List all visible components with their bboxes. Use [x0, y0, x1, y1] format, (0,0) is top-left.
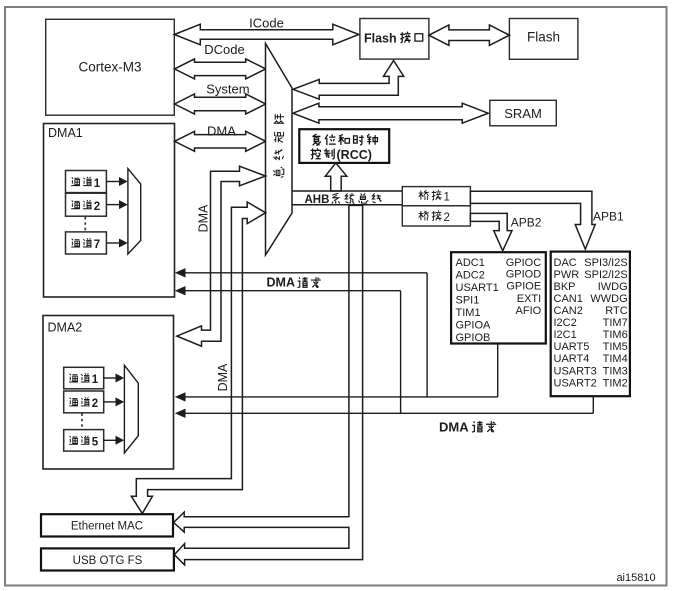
svg-text:7: 7 [94, 239, 100, 251]
svg-text:Flash: Flash [364, 31, 397, 45]
wire DMA request line 1 into DMA1 (from APB2 area) [175, 268, 427, 397]
svg-text:SPI2/I2S: SPI2/I2S [584, 269, 627, 281]
box channel2 DMA1 通道2 [66, 193, 107, 216]
wire bridge2 to APB2 (bent hollow arrow down) [470, 213, 541, 250]
svg-text:2: 2 [92, 398, 98, 410]
svg-text:GPIOC: GPIOC [506, 257, 542, 269]
arrow DMA1 channel7 to mux [107, 239, 128, 248]
wire System (double arrow Cortex-M3 to bus matrix) [175, 82, 266, 114]
svg-text:DMA: DMA [197, 204, 211, 232]
box Flash interface (Flash接口) [360, 19, 429, 60]
svg-text:DAC: DAC [554, 257, 577, 269]
svg-text:TIM1: TIM1 [456, 307, 481, 319]
svg-text:RTC: RTC [605, 305, 627, 317]
arrow DMA1 channel1 to mux [107, 177, 128, 186]
box SRAM [490, 100, 557, 126]
svg-text:DMA: DMA [439, 419, 469, 434]
svg-text:2: 2 [444, 212, 450, 224]
svg-text:DMA1: DMA1 [48, 126, 83, 140]
svg-text:USB OTG FS: USB OTG FS [73, 555, 143, 567]
svg-text:AHB: AHB [305, 194, 330, 206]
svg-text:AFIO: AFIO [516, 305, 542, 317]
svg-text:WWDG: WWDG [590, 293, 627, 305]
dotted line between DMA1 channel2 and channel7 [84, 217, 86, 232]
svg-text:DMA2: DMA2 [48, 321, 83, 335]
svg-text:USART2: USART2 [554, 377, 597, 389]
svg-text:DCode: DCode [204, 42, 244, 57]
svg-text:Cortex-M3: Cortex-M3 [78, 60, 141, 75]
bus matrix polygon [266, 44, 293, 256]
svg-text:ICode: ICode [249, 16, 284, 31]
box bridge1 桥接1 [402, 187, 470, 206]
box RCC (复位和时钟控制) [299, 129, 389, 163]
arrow DMA2 channel1 to mux [104, 374, 124, 383]
svg-text:TIM7: TIM7 [603, 317, 628, 329]
svg-text:USART3: USART3 [554, 365, 597, 377]
label AHB系统总线 [305, 194, 330, 206]
box channel2 DMA2 通道2 [64, 391, 104, 413]
wire bus matrix to Ethernet MAC DMA (bent hollow arrow, label DMA) [131, 202, 265, 514]
svg-text:APB1: APB1 [593, 210, 624, 224]
arrow DMA2 channel2 to mux [104, 397, 124, 406]
box channel7 DMA1 通道7 [66, 232, 107, 254]
svg-text:SPI3/I2S: SPI3/I2S [584, 257, 627, 269]
svg-text:SRAM: SRAM [504, 106, 542, 121]
wire DMA request line 2 into DMA1 [175, 286, 401, 413]
dotted line between DMA2 channel2 and channel5 [81, 414, 83, 430]
svg-text:Flash: Flash [527, 30, 560, 45]
wire DMA request line 4 into DMA2 (from APB1 box bottom) [175, 396, 594, 418]
svg-text:TIM5: TIM5 [603, 341, 628, 353]
DMA2 mux funnel [124, 365, 138, 453]
svg-text:APB2: APB2 [511, 216, 542, 230]
box channel1 DMA1 通道1 [66, 171, 107, 193]
svg-text:1: 1 [444, 192, 450, 204]
svg-text:5: 5 [92, 437, 99, 449]
svg-text:UART4: UART4 [554, 353, 590, 365]
svg-text:BKP: BKP [554, 281, 576, 293]
box DMA1 [44, 124, 175, 298]
svg-text:SPI1: SPI1 [456, 294, 480, 306]
svg-text:USART1: USART1 [456, 282, 499, 294]
label ai15810 [616, 572, 655, 584]
svg-text:TIM4: TIM4 [603, 353, 628, 365]
svg-text:UART5: UART5 [554, 341, 590, 353]
svg-text:CAN2: CAN2 [554, 305, 583, 317]
wire Flash interface to Flash (double arrow) [429, 25, 510, 45]
svg-text:Ethernet MAC: Ethernet MAC [71, 521, 143, 533]
DMA1 mux funnel [128, 169, 141, 254]
box Cortex-M3 [46, 19, 175, 115]
label DMA请求 upper [267, 276, 295, 290]
svg-text:GPIOE: GPIOE [506, 280, 541, 292]
wire ICode (double arrow Cortex-M3 to Flash interface) [174, 16, 358, 45]
arrow DMA2 channel5 to mux [104, 436, 124, 445]
box bridge2 桥接2 [402, 206, 470, 226]
svg-text:System: System [206, 82, 249, 97]
svg-text:GPIOD: GPIOD [506, 269, 542, 281]
svg-text:ADC2: ADC2 [456, 269, 485, 281]
wire DCode (double arrow Cortex-M3 to bus matrix) [175, 42, 266, 79]
box APB2 peripherals [451, 252, 546, 344]
svg-text:DMA: DMA [207, 123, 236, 138]
box Ethernet MAC [41, 514, 173, 536]
svg-text:CAN1: CAN1 [554, 293, 583, 305]
box channel1 DMA2 通道1 [64, 367, 104, 389]
svg-text:TIM2: TIM2 [603, 377, 628, 389]
wire DMA (double arrow DMA1 to bus matrix) [175, 123, 266, 151]
svg-text:GPIOA: GPIOA [456, 319, 492, 331]
wire DMA request line 3 into DMA2 (from APB2 box bottom) [175, 344, 498, 402]
svg-text:1: 1 [92, 374, 99, 386]
svg-text:GPIOB: GPIOB [456, 332, 491, 344]
wire AHB bus to Ethernet MAC and USB OTG FS (hollow channel with two left arrows) [174, 205, 363, 565]
wire bus matrix to SRAM (double arrow) [293, 103, 488, 123]
wire bus matrix to DMA2 (bent hollow arrow, label DMA) [177, 166, 266, 346]
wire AHB bus to RCC (hollow up arrow) [325, 163, 347, 191]
arrow DMA1 channel2 to mux [107, 200, 128, 209]
svg-text:TIM6: TIM6 [603, 329, 628, 341]
svg-text:DMA: DMA [267, 276, 295, 290]
bus matrix rotated label 总线矩阵 [273, 114, 284, 178]
label DMA请求 lower [439, 419, 469, 434]
svg-text:ADC1: ADC1 [456, 257, 485, 269]
svg-text:TIM3: TIM3 [603, 365, 628, 377]
box USB OTG FS [41, 548, 174, 570]
svg-text:DMA: DMA [216, 363, 230, 391]
svg-text:(RCC): (RCC) [337, 148, 372, 162]
box Flash [509, 19, 578, 60]
wire bus matrix to Flash interface (bent hollow arrow) [293, 61, 404, 100]
svg-text:I2C1: I2C1 [554, 329, 577, 341]
svg-text:I2C2: I2C2 [554, 317, 577, 329]
svg-text:PWR: PWR [554, 269, 580, 281]
svg-text:2: 2 [94, 201, 100, 213]
wire AHB system bus (double line) [292, 191, 402, 205]
svg-text:EXTI: EXTI [517, 293, 541, 305]
svg-text:1: 1 [94, 178, 101, 190]
box DMA2 [43, 316, 174, 470]
box channel5 DMA2 通道5 [64, 430, 104, 452]
svg-text:ai15810: ai15810 [616, 572, 655, 584]
svg-text:IWDG: IWDG [598, 281, 628, 293]
wire bridge1 to APB1 (bent hollow arrow down) [470, 191, 624, 249]
box APB1 peripherals [551, 252, 630, 397]
